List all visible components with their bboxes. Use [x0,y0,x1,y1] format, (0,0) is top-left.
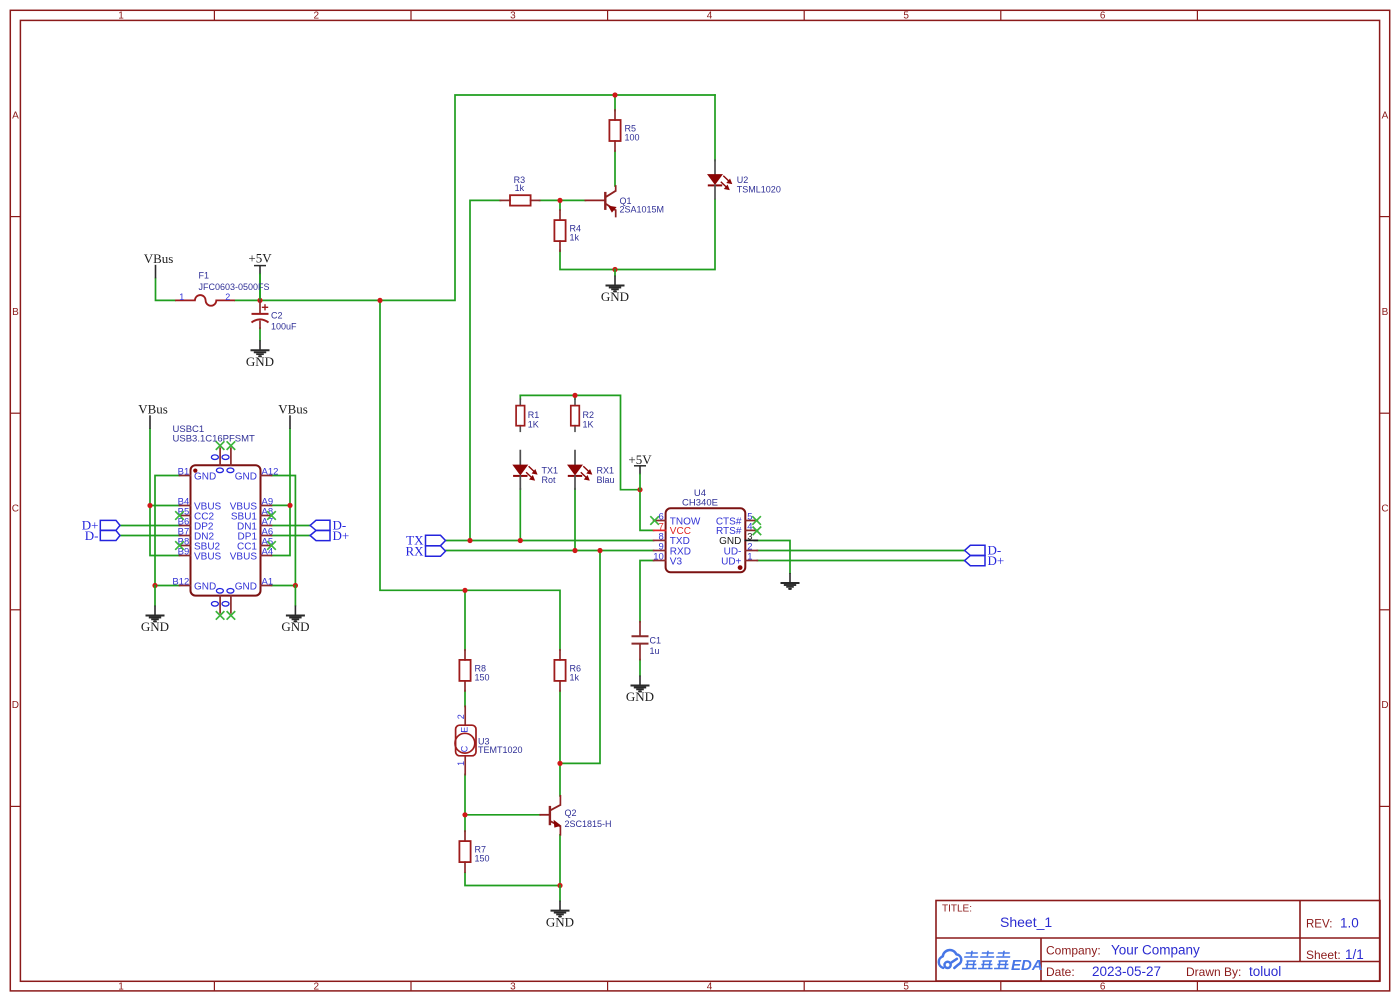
svg-text:A12: A12 [262,467,279,478]
wire V3 to C1 [640,561,654,622]
wire VBus right to A9 A4 [272,429,291,556]
resistor R8 [464,650,466,660]
capacitor C2 [259,300,261,313]
wire Q2 base [465,814,540,816]
wire GND rail of Q1 stage [560,200,715,270]
junction [637,487,642,492]
svg-text:F1: F1 [199,271,210,281]
wire R5 top [614,95,616,111]
junction [377,298,382,303]
svg-text:2023-05-27: 2023-05-27 [1092,964,1161,979]
junction [462,812,467,817]
pin A9 VBUS [261,505,272,507]
wire DP1 to D+ port [272,535,311,537]
ground at U4 pin3 [789,573,791,583]
wire to ground Q2 stage [559,886,561,901]
phototransistor U3 TEMT1020 [464,706,466,725]
wire +5V to VCC pin [640,490,654,531]
svg-text:toluol: toluol [1249,964,1281,979]
svg-text:D: D [1381,700,1388,711]
svg-text:2: 2 [456,714,466,719]
svg-text:C: C [460,745,470,752]
svg-text:Sheet:: Sheet: [1306,948,1341,962]
svg-text:1: 1 [118,981,124,992]
svg-text:150: 150 [475,854,490,864]
resistor R5 [614,110,616,120]
svg-text:VBus: VBus [278,402,308,417]
pin1 marker USBC1 [193,469,197,473]
pin 2 UD- [745,550,757,552]
svg-text:A4: A4 [262,547,274,558]
svg-text:JFC0603-0500FS: JFC0603-0500FS [199,282,270,292]
ground GND USB right [294,606,296,616]
wire +5V stem C2 node [259,274,261,300]
pin A5 CC1 [261,545,272,547]
wire R8 top [464,590,466,650]
wire B1 to B12 gnd [155,476,180,586]
junction [557,761,562,766]
pin B4 VBUS [180,505,191,507]
no-connect marks USBC1 [175,511,184,520]
wire U3 emitter to R7 [464,774,466,831]
pin 8 TXD [654,539,666,541]
wire VBus to F1 [156,279,176,301]
wire U4 GND pin to ground [754,541,790,574]
svg-text:3: 3 [510,981,516,992]
pin 10 V3 [654,560,666,562]
svg-text:Sheet_1: Sheet_1 [1000,914,1052,930]
svg-text:2SC1815-H: 2SC1815-H [565,819,612,829]
svg-text:D+: D+ [333,528,350,543]
svg-text:TITLE:: TITLE: [942,904,972,915]
svg-text:150: 150 [475,672,490,682]
svg-text:GND: GND [235,582,257,593]
svg-text:GND: GND [546,914,574,929]
svg-text:GND: GND [235,472,257,483]
svg-text:TX1: TX1 [542,465,559,475]
node D- port far right [965,545,985,555]
svg-text:CH340E: CH340E [682,498,718,509]
svg-text:D+: D+ [988,553,1005,568]
ground GND at C1 [639,676,641,686]
node D- port usb right [310,520,330,530]
svg-text:VBus: VBus [138,402,168,417]
svg-text:Company:: Company: [1046,944,1101,958]
junction [462,588,467,593]
svg-text:Rot: Rot [542,475,557,485]
wire R3 to Q1 base [540,199,586,201]
svg-text:2SA1015M: 2SA1015M [620,205,665,215]
junction [597,548,602,553]
wire RXD net [446,550,654,552]
svg-text:B1: B1 [178,467,190,478]
svg-text:100uF: 100uF [271,322,297,332]
svg-text:B9: B9 [178,547,190,558]
pin1 marker U4 [738,565,743,570]
pin B5 CC2 [180,515,191,517]
pin B7 DN2 [180,535,191,537]
svg-text:+5V: +5V [628,452,652,467]
pin B1 GND [180,475,191,477]
svg-text:E: E [460,727,470,733]
wire D+ port to DP2 [120,525,180,527]
svg-text:1u: 1u [650,646,660,656]
svg-text:VBus: VBus [144,251,174,266]
svg-text:3: 3 [510,11,516,22]
pin 7 VCC [654,529,666,531]
no-connect marks U4 [650,516,659,525]
pin 4 RTS# [745,529,757,531]
svg-text:REV:: REV: [1306,919,1332,931]
junction [572,393,577,398]
wire R1 R2 top rail to +5V [520,395,640,489]
svg-text:GND: GND [281,619,309,634]
svg-text:B12: B12 [172,577,189,588]
wire UD- to D- port [757,550,964,552]
svg-text:Q2: Q2 [565,808,577,818]
junction [612,267,617,272]
svg-text:C: C [1381,504,1388,515]
junction [518,538,523,543]
svg-text:Drawn By:: Drawn By: [1186,965,1241,979]
junction [147,503,152,508]
svg-text:6: 6 [1100,981,1106,992]
capacitor C1 [639,622,641,636]
svg-text:VBUS: VBUS [230,552,258,563]
svg-text:2: 2 [314,981,320,992]
svg-text:VBUS: VBUS [194,552,222,563]
svg-text:1: 1 [747,552,752,563]
wire C1 to GND [639,660,641,676]
svg-text:C1: C1 [650,635,662,645]
svg-text:1K: 1K [528,420,539,430]
transistor Q2 2SC1815-H [540,814,550,816]
svg-text:1k: 1k [570,672,580,682]
svg-text:RX1: RX1 [597,465,615,475]
svg-text:4: 4 [707,11,713,22]
wire to ground USB right [294,586,296,606]
shield pins top [219,448,221,465]
pin A12 GND [261,475,272,477]
wire RXD down to R6 Q2 node [560,551,600,764]
svg-text:C2: C2 [271,311,283,321]
junction [557,198,562,203]
junction [257,298,262,303]
wire +5V rail from F1 to top rail and U2 [235,95,715,300]
node TX port [426,535,446,545]
junction [287,503,292,508]
logo JLCEDA [939,950,961,968]
pin A1 GND [261,585,272,587]
wire B4 to VBus [150,505,180,507]
wire bottom GND rail [465,873,560,886]
op-amp U4 CH340E body [666,508,746,572]
pin B9 VBUS [180,555,191,557]
junction [467,538,472,543]
svg-text:A: A [12,111,19,122]
connector USBC1 body [191,465,261,595]
svg-text:Your Company: Your Company [1111,943,1200,958]
svg-text:1: 1 [456,761,466,766]
svg-text:USB3.1C16PFSMT: USB3.1C16PFSMT [173,434,256,445]
resistor R1 [519,399,521,406]
wire R5 to Q1 collector [614,151,616,186]
svg-text:GND: GND [601,289,629,304]
resistor R3 [500,199,510,201]
fuse F1 [175,295,235,306]
ground GND at C2 [259,340,261,350]
svg-text:5: 5 [903,11,909,22]
svg-text:A: A [1382,111,1389,122]
resistor R7 [464,831,466,841]
wire +5V down to R8 R6 rail [380,300,560,650]
pin 1 UD+ [745,560,757,562]
svg-text:GND: GND [194,582,216,593]
svg-text:U2: U2 [737,175,749,185]
junction [293,583,298,588]
svg-text:6: 6 [1100,11,1106,22]
svg-text:GND: GND [194,472,216,483]
wire VBus left to B4 B9 [150,429,180,556]
svg-text:D-: D- [85,528,99,543]
svg-text:5: 5 [903,981,909,992]
svg-text:1k: 1k [570,233,580,243]
svg-text:10: 10 [653,552,664,563]
wire TXD net [446,540,654,542]
LED TX1 Rot [519,451,521,466]
svg-text:+5V: +5V [248,251,272,266]
pin B12 GND [180,585,191,587]
wire TXD to R3 [470,200,501,540]
svg-text:1k: 1k [515,183,525,193]
ground GND Q2 stage [559,901,561,911]
node D+ port far right [965,556,985,566]
wire R4 top [559,200,561,210]
svg-text:GND: GND [246,354,274,369]
wire to ground Q1 stage [614,270,616,276]
wire TX1 cathode to TXD [519,489,521,541]
svg-text:EDA: EDA [1011,957,1043,974]
svg-text:1/1: 1/1 [1345,947,1364,962]
svg-text:TEMT1020: TEMT1020 [478,745,523,755]
pin 6 TNOW [654,520,666,522]
svg-text:1K: 1K [583,420,594,430]
wire A9 to VBus [272,504,291,506]
svg-text:UD+: UD+ [721,556,741,567]
svg-text:A1: A1 [262,577,274,588]
svg-text:B: B [1382,307,1389,318]
junction [572,548,577,553]
pin B8 SBU2 [180,545,191,547]
svg-text:4: 4 [707,981,713,992]
svg-text:R2: R2 [583,410,595,420]
node RX port [426,546,446,556]
svg-text:1: 1 [118,11,124,22]
wire R6 bottom to Q2 collector [559,691,561,796]
wire R8 to U3 [464,691,466,707]
svg-text:GND: GND [626,689,654,704]
wire RX1 cathode to RXD [574,489,576,551]
wire UD+ to D+ port [757,560,964,562]
ground GND Q1 stage [614,276,616,286]
svg-text:1.0: 1.0 [1340,916,1359,931]
svg-text:R1: R1 [528,410,540,420]
wire U2 anode [714,95,716,161]
svg-text:RX: RX [405,543,424,558]
svg-text:Date:: Date: [1046,965,1075,979]
pin A7 DN1 [261,525,272,527]
pin 3 GND [745,539,757,541]
ground GND USB left [154,606,156,616]
svg-text:D: D [12,700,19,711]
wire C2 to ground [259,328,261,340]
svg-text:C: C [12,504,19,515]
pin B6 DP2 [180,525,191,527]
svg-text:Blau: Blau [597,475,615,485]
wire Q2 emitter down [559,835,561,886]
transistor Q1 2SA1015M [585,199,605,201]
node D+ port left [100,520,120,530]
svg-text:V3: V3 [670,556,683,567]
svg-text:2: 2 [225,292,230,302]
pin A4 VBUS [261,555,272,557]
pin 9 RXD [654,550,666,552]
LED RX1 Blau [574,451,576,466]
node D+ port usb right [310,531,330,541]
wire DN1 to D- port [272,525,311,527]
wire to ground USB left [154,586,156,606]
pin A6 DP1 [261,535,272,537]
resistor R2 [574,399,576,406]
junction [152,583,157,588]
svg-text:100: 100 [625,133,640,143]
LED U2 TSML1020 [714,160,716,175]
wire D- port to DN2 [120,535,180,537]
svg-text:GND: GND [141,619,169,634]
pin A8 SBU1 [261,515,272,517]
node D- port left [100,531,120,541]
junction [557,883,562,888]
pin 5 CTS# [745,520,757,522]
title block [936,901,1380,982]
svg-text:TSML1020: TSML1020 [737,184,781,194]
svg-text:B: B [12,307,19,318]
wire A12 to A1 gnd [272,476,296,586]
junction [612,92,617,97]
shield pins bottom [219,596,221,613]
resistor R6 [559,650,561,660]
resistor R4 [559,210,561,220]
svg-text:2: 2 [314,11,320,22]
svg-text:1: 1 [179,292,184,302]
